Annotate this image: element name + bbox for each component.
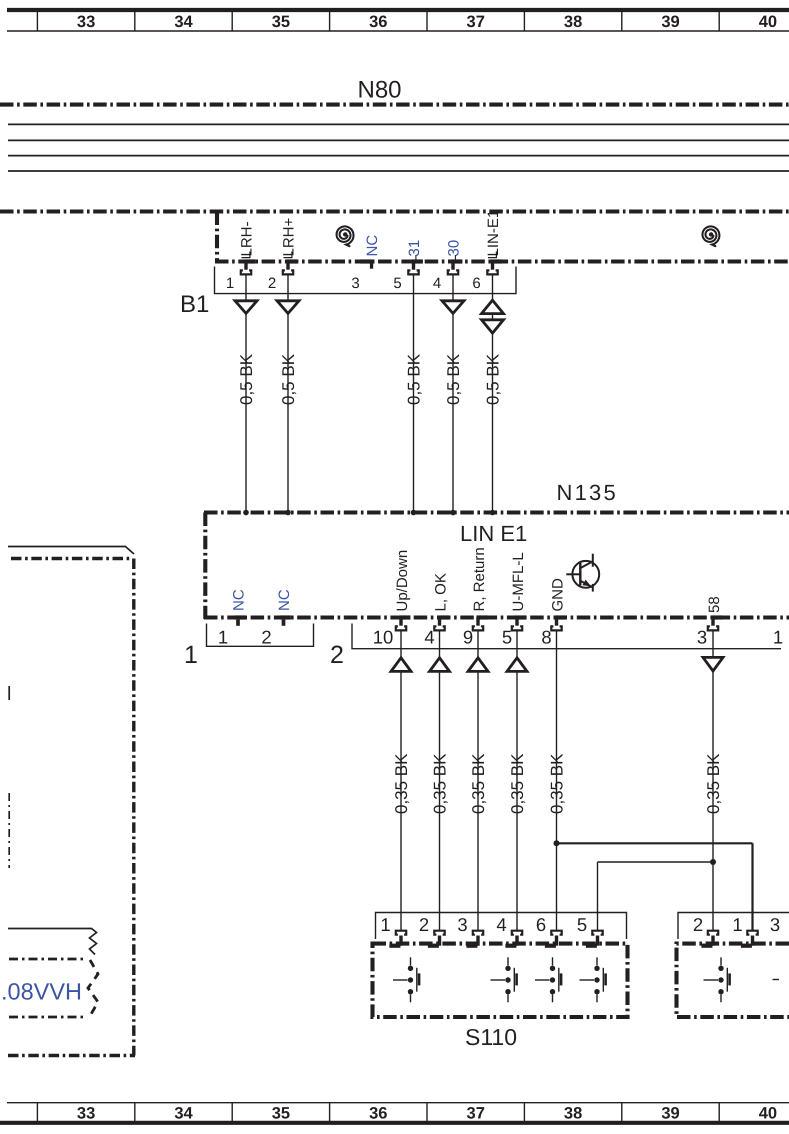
svg-text:1: 1 <box>380 914 390 935</box>
connector number 1 (big) <box>184 641 198 669</box>
svg-text:R, Return: R, Return <box>471 547 488 611</box>
N80 boundary dash-dot line (top) <box>0 103 789 107</box>
junction node on 58 wire <box>710 859 716 865</box>
S110 pin 1 socket <box>389 931 406 948</box>
S110 connector bracket outline <box>376 913 627 940</box>
svg-text:1: 1 <box>184 641 198 669</box>
svg-text:39: 39 <box>661 1105 679 1123</box>
inner dash-dot edge lower <box>9 1016 85 1019</box>
pin label R, Return (N135) <box>471 547 488 611</box>
pin label 58 (N135 pin 3) <box>706 596 723 613</box>
right box pin numbers 2 1 3 <box>693 914 780 935</box>
direction arrow on wire B1-1 <box>235 301 257 314</box>
right box pin 2 socket <box>701 931 718 948</box>
svg-text:8: 8 <box>541 627 551 648</box>
svg-text:37: 37 <box>467 1105 485 1123</box>
svg-text:2: 2 <box>693 914 703 935</box>
pin label NC blue (N135 conn1 pin 1) <box>231 589 248 611</box>
connector designator B1 <box>180 291 209 318</box>
svg-text:33: 33 <box>77 1105 95 1123</box>
svg-text:3: 3 <box>697 627 707 648</box>
svg-text:33: 33 <box>77 13 95 31</box>
svg-text:4: 4 <box>433 275 441 292</box>
N135 conn1 pin 1 NC stub <box>235 615 246 625</box>
direction arrow up on wire 9 <box>468 658 488 672</box>
wire gauge labels 0,5 BK <box>237 353 503 405</box>
N135 connector 2 bracket outline <box>352 624 781 649</box>
pin label 31 blue (B1 pin 5) <box>406 240 423 260</box>
direction arrow on wire B1-4 <box>442 301 464 314</box>
svg-text:6: 6 <box>472 275 480 292</box>
push-button switch S110/4 <box>580 957 606 1002</box>
push-button switch S110/2 <box>491 957 517 1002</box>
right connector bracket outline <box>678 913 789 940</box>
S110 box dash-dot border <box>373 944 628 1017</box>
N80 boundary vertical dash-dot segment <box>215 212 219 264</box>
S110 pin numbers 1 2 3 4 6 5 <box>380 914 587 935</box>
left box top dash-dot edge <box>11 557 131 560</box>
pin label LRH- (B1 pin 1) <box>239 221 256 257</box>
N135 bottom boundary dash-dot line <box>204 615 789 619</box>
svg-text:10: 10 <box>373 627 394 648</box>
svg-text:2: 2 <box>261 627 271 648</box>
svg-text:0,5 BK: 0,5 BK <box>405 353 424 405</box>
S110 pin 6 socket <box>545 931 562 948</box>
B1 pin 4 socket <box>448 259 463 274</box>
svg-text:1: 1 <box>732 914 742 935</box>
svg-text:5: 5 <box>502 627 512 648</box>
svg-text:40: 40 <box>759 13 777 31</box>
B1 pin 3 NC stub <box>360 259 373 268</box>
svg-text:3: 3 <box>770 914 780 935</box>
B1 pin 2 socket <box>283 259 298 274</box>
GND wire from N135 pin 8 down <box>556 630 558 932</box>
stub of off-page switch lead <box>773 979 780 981</box>
junction dots where wires meet N135 <box>243 510 495 516</box>
B1 connector bracket outline <box>215 267 517 294</box>
wires from N135 conn2 pins 10,4,9,5 down to S110 <box>401 630 517 932</box>
svg-text:N135: N135 <box>557 480 618 505</box>
svg-text:35: 35 <box>272 1105 290 1123</box>
B1 pin numbers 1 2 3 5 4 6 <box>226 275 481 292</box>
N135 conn2 pin socket at Up/Down <box>396 615 411 630</box>
svg-text:LRH-: LRH- <box>239 221 256 256</box>
svg-text:NC: NC <box>276 589 293 611</box>
harness code label .08VVH (blue) <box>1 979 82 1005</box>
svg-text:40: 40 <box>759 1105 777 1123</box>
svg-text:0,35 BK: 0,35 BK <box>469 753 488 814</box>
pin label Up/Down (N135) <box>394 550 411 612</box>
left component solid top edge with corner <box>8 547 134 555</box>
pin label U-MFL-L (N135) <box>510 552 527 611</box>
component label S110 <box>465 1024 517 1050</box>
S110 pin 5 socket <box>586 931 603 948</box>
svg-text:0,5 BK: 0,5 BK <box>237 353 256 405</box>
N135 conn2 pin socket at U-MFL-L <box>512 615 527 630</box>
svg-text:N80: N80 <box>358 77 402 104</box>
N135 top boundary dash-dot line <box>204 510 789 514</box>
component label N135 <box>557 480 618 505</box>
left edge wire stub <box>8 686 10 700</box>
direction arrow up on wire 4 <box>430 658 450 672</box>
svg-text:B1: B1 <box>180 291 209 318</box>
N135 conn1 pin 2 NC stub <box>280 615 291 625</box>
svg-text:S110: S110 <box>465 1024 517 1050</box>
N135 pin 3 socket <box>708 615 723 630</box>
svg-text:2: 2 <box>330 641 344 669</box>
svg-text:0,5 BK: 0,5 BK <box>484 353 503 405</box>
wires from B1 pins down to N135 (5 vertical wires) <box>246 275 493 513</box>
inner dash-dot edge upper <box>9 958 87 961</box>
transistor symbol U1 inside N135 <box>566 554 599 592</box>
svg-text:0,35 BK: 0,35 BK <box>548 753 567 814</box>
direction arrow up on wire 10 <box>391 658 411 672</box>
svg-text:3: 3 <box>351 275 359 292</box>
svg-text:5: 5 <box>577 914 587 935</box>
B1 pin 1 socket <box>241 259 256 274</box>
direction arrow down on wire 58 <box>703 657 723 671</box>
svg-text:2: 2 <box>268 275 276 292</box>
right switch box dash-dot border (partial) <box>677 944 789 1017</box>
58 branch wire to S110 pin 5 <box>598 862 714 932</box>
right box pin 1 socket <box>741 931 758 948</box>
twisted-pair spiral symbol (left) <box>337 226 354 246</box>
N80 internal bus lines (4 horizontal wires) <box>8 124 789 171</box>
pin label 30 blue (B1 pin 4) <box>446 240 463 260</box>
pin label LIN-E1 (B1 pin 6) <box>485 210 502 258</box>
wire from N135 pin 3 (58) down <box>712 630 714 932</box>
left box bottom dash-dot edge <box>8 1054 135 1057</box>
svg-text:38: 38 <box>564 1105 582 1123</box>
N135 connector 1 bracket outline <box>207 624 314 647</box>
svg-text:37: 37 <box>467 13 485 31</box>
svg-text:L, OK: L, OK <box>432 573 449 611</box>
wire gauge labels 0,35 BK <box>392 753 723 814</box>
junction node on GND wire <box>554 840 560 846</box>
svg-text:0,5 BK: 0,5 BK <box>444 353 463 405</box>
twisted-pair spiral symbol (right) <box>703 226 720 246</box>
svg-text:4: 4 <box>424 627 434 648</box>
svg-text:0,35 BK: 0,35 BK <box>508 753 527 814</box>
svg-text:LIN-E1: LIN-E1 <box>485 210 502 257</box>
svg-text:NC: NC <box>364 235 381 257</box>
svg-text:3: 3 <box>457 914 467 935</box>
svg-text:58: 58 <box>706 596 723 613</box>
pin label GND (N135) <box>549 578 566 612</box>
B1 pin 6 socket <box>487 259 502 274</box>
N135 left boundary dash-dot line <box>203 513 207 620</box>
svg-text:LRH+: LRH+ <box>281 217 298 256</box>
svg-text:9: 9 <box>463 627 473 648</box>
svg-text:5: 5 <box>393 275 401 292</box>
svg-text:30: 30 <box>446 240 463 257</box>
push-button switch S110/3 <box>535 957 561 1002</box>
svg-text:35: 35 <box>272 13 290 31</box>
svg-text:39: 39 <box>661 13 679 31</box>
S110 pin 2 socket <box>428 931 445 948</box>
svg-text:LIN E1: LIN E1 <box>460 521 527 546</box>
inner component solid edge with torn zigzag end <box>8 929 97 955</box>
bottom border ruler with grid column numbers 33-40 <box>0 1103 789 1123</box>
N135 conn2 pin socket at R, Return <box>473 615 488 630</box>
N135 conn2 pin socket at L, OK <box>434 615 449 630</box>
connector designator LIN E1 <box>460 521 527 546</box>
direction arrow on wire B1-2 <box>277 301 299 314</box>
top border ruler with grid column numbers 33-40 <box>7 10 789 31</box>
svg-text:4: 4 <box>496 914 506 935</box>
pin label NC blue (B1 pin 3) <box>364 235 381 257</box>
push-button switch S110/1 <box>393 957 419 1002</box>
S110 pin 4 socket <box>505 931 522 948</box>
svg-text:38: 38 <box>564 13 582 31</box>
pin label L, OK (N135) <box>432 573 449 611</box>
svg-text:1: 1 <box>218 627 228 648</box>
svg-text:1: 1 <box>226 275 234 292</box>
svg-text:0,35 BK: 0,35 BK <box>704 753 723 814</box>
left edge dash-dot stub <box>8 793 10 868</box>
left box right dash-dot edge <box>132 559 135 1056</box>
double arrow on LIN wire B1-6 <box>482 300 504 333</box>
S110 pin 3 socket <box>466 931 483 948</box>
connector number 2 (big) <box>330 641 344 669</box>
N80 lower boundary dash-dot line <box>0 209 789 213</box>
svg-text:1: 1 <box>773 627 783 648</box>
svg-text:Up/Down: Up/Down <box>394 550 411 612</box>
GND branch wire to right connector pin 1 <box>557 843 753 931</box>
B1 connector strip dash-dot line <box>215 259 789 263</box>
svg-text:.08VVH: .08VVH <box>1 979 82 1005</box>
svg-text:2: 2 <box>419 914 429 935</box>
svg-text:NC: NC <box>231 589 248 611</box>
pin label LRH+ (B1 pin 2) <box>281 217 298 257</box>
svg-text:0,35 BK: 0,35 BK <box>392 753 411 814</box>
svg-text:GND: GND <box>549 578 566 612</box>
svg-text:0,5 BK: 0,5 BK <box>279 353 298 405</box>
svg-text:36: 36 <box>369 13 387 31</box>
svg-text:U-MFL-L: U-MFL-L <box>510 552 527 611</box>
N135 bottom pin numbers 1 2 10 4 9 5 8 3 1 <box>218 627 783 648</box>
push-button switch (right box) <box>704 957 730 1002</box>
direction arrow up on wire 5 <box>507 658 527 672</box>
component label N80 <box>358 77 402 104</box>
B1 pin 5 socket <box>408 259 423 274</box>
svg-text:31: 31 <box>406 240 423 257</box>
svg-text:34: 34 <box>174 13 193 31</box>
svg-text:6: 6 <box>536 914 546 935</box>
pin label NC blue (N135 conn1 pin 2) <box>276 589 293 611</box>
svg-text:0,35 BK: 0,35 BK <box>431 753 450 814</box>
N135 conn2 pin socket at GND <box>551 615 566 630</box>
svg-text:36: 36 <box>369 1105 387 1123</box>
torn dash-dot edge (jagged) <box>88 960 98 1016</box>
svg-text:34: 34 <box>174 1105 193 1123</box>
